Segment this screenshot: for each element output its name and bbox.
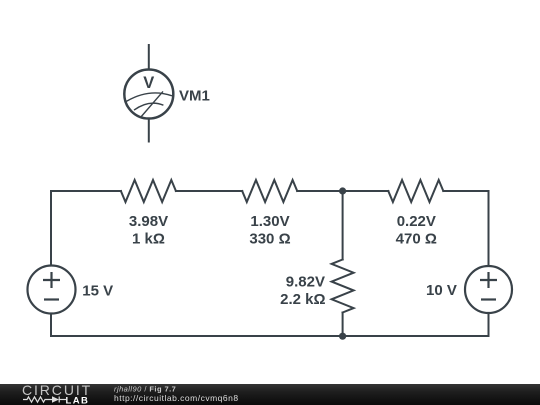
wire left vertical upper <box>50 191 52 266</box>
wire middle branch lower <box>342 313 344 337</box>
wire top-left segment <box>51 190 121 192</box>
wire middle branch upper <box>342 191 344 260</box>
svg-text:1 kΩ: 1 kΩ <box>132 231 165 248</box>
voltage source V2 plus sign <box>480 272 497 288</box>
wire bottom horizontal <box>51 335 489 337</box>
svg-text:V: V <box>143 74 154 92</box>
voltage source V2 circle <box>465 266 512 313</box>
voltmeter VM1 needle <box>141 91 163 117</box>
voltage source V2 minus sign <box>481 298 496 300</box>
node B junction dot bottom <box>339 333 346 340</box>
resistor R2 330 zigzag <box>242 180 297 202</box>
footer bar <box>0 384 540 405</box>
svg-text:15 V: 15 V <box>82 282 113 299</box>
wire between R2 and R3 through node A <box>297 190 388 192</box>
svg-text:VM1: VM1 <box>179 87 210 104</box>
voltage source V1 minus sign <box>44 298 59 300</box>
voltage source V1 circle <box>28 266 76 314</box>
svg-text:LAB: LAB <box>66 395 90 405</box>
voltmeter VM1 top lead <box>148 45 150 70</box>
svg-text:2.2 kΩ: 2.2 kΩ <box>280 291 325 308</box>
svg-text:10 V: 10 V <box>426 282 457 299</box>
node A junction dot top <box>339 187 346 194</box>
svg-text:rjhall90 / Fig 7.7: rjhall90 / Fig 7.7 <box>114 384 176 393</box>
resistor R1 1k zigzag <box>121 180 176 202</box>
svg-text:1.30V: 1.30V <box>250 213 289 230</box>
svg-text:330 Ω: 330 Ω <box>249 231 290 248</box>
wire right vertical lower <box>488 313 490 336</box>
svg-text:3.98V: 3.98V <box>129 213 168 230</box>
svg-text:470 Ω: 470 Ω <box>396 231 437 248</box>
wire between R1 and R2 <box>176 190 242 192</box>
voltage source V1 plus sign <box>43 272 60 288</box>
wire left vertical lower <box>50 314 52 337</box>
svg-text:9.82V: 9.82V <box>286 274 325 291</box>
resistor R3 470 zigzag <box>388 180 443 202</box>
voltmeter VM1 bottom lead <box>148 119 150 142</box>
voltmeter VM1 meter scale arcs <box>126 93 172 110</box>
wire top-right segment <box>443 190 488 192</box>
svg-text:http://circuitlab.com/cvmq6n8: http://circuitlab.com/cvmq6n8 <box>114 393 239 403</box>
resistor R4 2.2k vertical zigzag <box>332 260 354 313</box>
svg-text:0.22V: 0.22V <box>397 213 436 230</box>
CircuitLab logo resistor-diode symbol <box>23 397 66 403</box>
wire right vertical upper <box>488 191 490 266</box>
voltmeter VM1 body circle <box>124 70 173 119</box>
